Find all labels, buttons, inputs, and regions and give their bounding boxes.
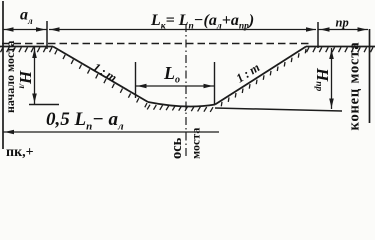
right bank ground line bbox=[306, 46, 375, 48]
left depth reference tick bbox=[29, 104, 59, 106]
bridge start line bbox=[2, 1, 4, 149]
right slope-edge extension line bbox=[317, 22, 319, 48]
left slope-edge extension line bbox=[46, 21, 48, 49]
dimension line 0,5 L_p - a_l bbox=[3, 131, 219, 133]
right slope 1:m line bbox=[215, 47, 306, 105]
dimension arrow H_l bbox=[34, 47, 36, 104]
left slope 1:m line bbox=[53, 47, 148, 103]
left slope hatching bbox=[55, 50, 147, 107]
left bank ground line bbox=[0, 46, 53, 48]
svg-text:0,5 Lп− aл: 0,5 Lп− aл bbox=[46, 109, 124, 133]
dimension arrow L_o bbox=[136, 85, 215, 87]
channel bottom line bbox=[148, 102, 215, 107]
riverbed reference line bbox=[215, 108, 342, 111]
svg-text:пк,+: пк,+ bbox=[6, 145, 34, 160]
bridge end line bbox=[369, 29, 371, 123]
svg-text:ось: ось bbox=[169, 137, 185, 159]
left bank hatching bbox=[1, 47, 53, 52]
L_o right extension line bbox=[214, 62, 216, 104]
roadway dashed line bbox=[2, 43, 311, 45]
svg-text:моста: моста bbox=[189, 128, 203, 159]
bridge axis centerline bbox=[185, 24, 187, 158]
L_o left extension line bbox=[135, 62, 137, 98]
dimension arrow a_pr bbox=[318, 29, 368, 31]
dimension arrow H_pr bbox=[331, 48, 333, 109]
right bank hatching bbox=[307, 47, 374, 52]
svg-text:конец моста: конец моста bbox=[347, 42, 363, 131]
dimension arrow a_l bbox=[3, 29, 47, 31]
dimension line L_k bbox=[49, 29, 316, 31]
svg-text:начало моста: начало моста bbox=[3, 41, 17, 113]
channel bottom hatching bbox=[147, 105, 213, 112]
svg-text:пр: пр bbox=[336, 16, 349, 30]
right slope hatching bbox=[221, 49, 306, 107]
svg-text:Lк= Lп−(aл+aпр): Lк= Lп−(aл+aпр) bbox=[150, 12, 254, 32]
